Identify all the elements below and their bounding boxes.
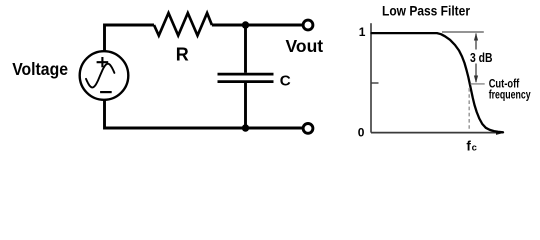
label fc (466, 138, 476, 153)
wire resistor to top terminal (212, 24, 302, 27)
terminal bottom (303, 123, 313, 133)
svg-text:0: 0 (358, 125, 365, 139)
3dB level bar (471, 83, 485, 85)
svg-text:1: 1 (359, 25, 366, 39)
3dB reference line top (442, 31, 484, 33)
svg-text:Low Pass Filter: Low Pass Filter (382, 2, 470, 18)
response curve (372, 33, 504, 132)
svg-text:R: R (176, 45, 189, 65)
node junction top (242, 21, 249, 28)
3dB arrow vertical (474, 33, 478, 83)
wire junction to capacitor (244, 25, 247, 73)
svg-text:frequency: frequency (489, 87, 531, 101)
svg-text:Vout: Vout (286, 36, 324, 56)
cutoff dashed line (468, 88, 470, 131)
graph x-axis with arrowhead (371, 131, 504, 135)
resistor R (154, 13, 212, 36)
voltage source V1 (80, 51, 129, 100)
wire capacitor to bottom (244, 83, 247, 128)
graph y-axis mid tick (371, 82, 379, 84)
terminal Vout top (303, 20, 313, 30)
svg-text:3 dB: 3 dB (470, 51, 493, 65)
wire source top to resistor (105, 25, 155, 52)
label Cut-off frequency (489, 76, 531, 101)
capacitor C (218, 74, 274, 82)
graph y-axis (370, 23, 372, 132)
svg-text:C: C (280, 73, 291, 90)
node junction bottom (242, 124, 249, 131)
wire source bottom to bottom terminal (105, 99, 303, 128)
label 3 dB (468, 50, 495, 65)
svg-text:Voltage: Voltage (12, 59, 68, 79)
svg-text:c: c (472, 143, 477, 154)
